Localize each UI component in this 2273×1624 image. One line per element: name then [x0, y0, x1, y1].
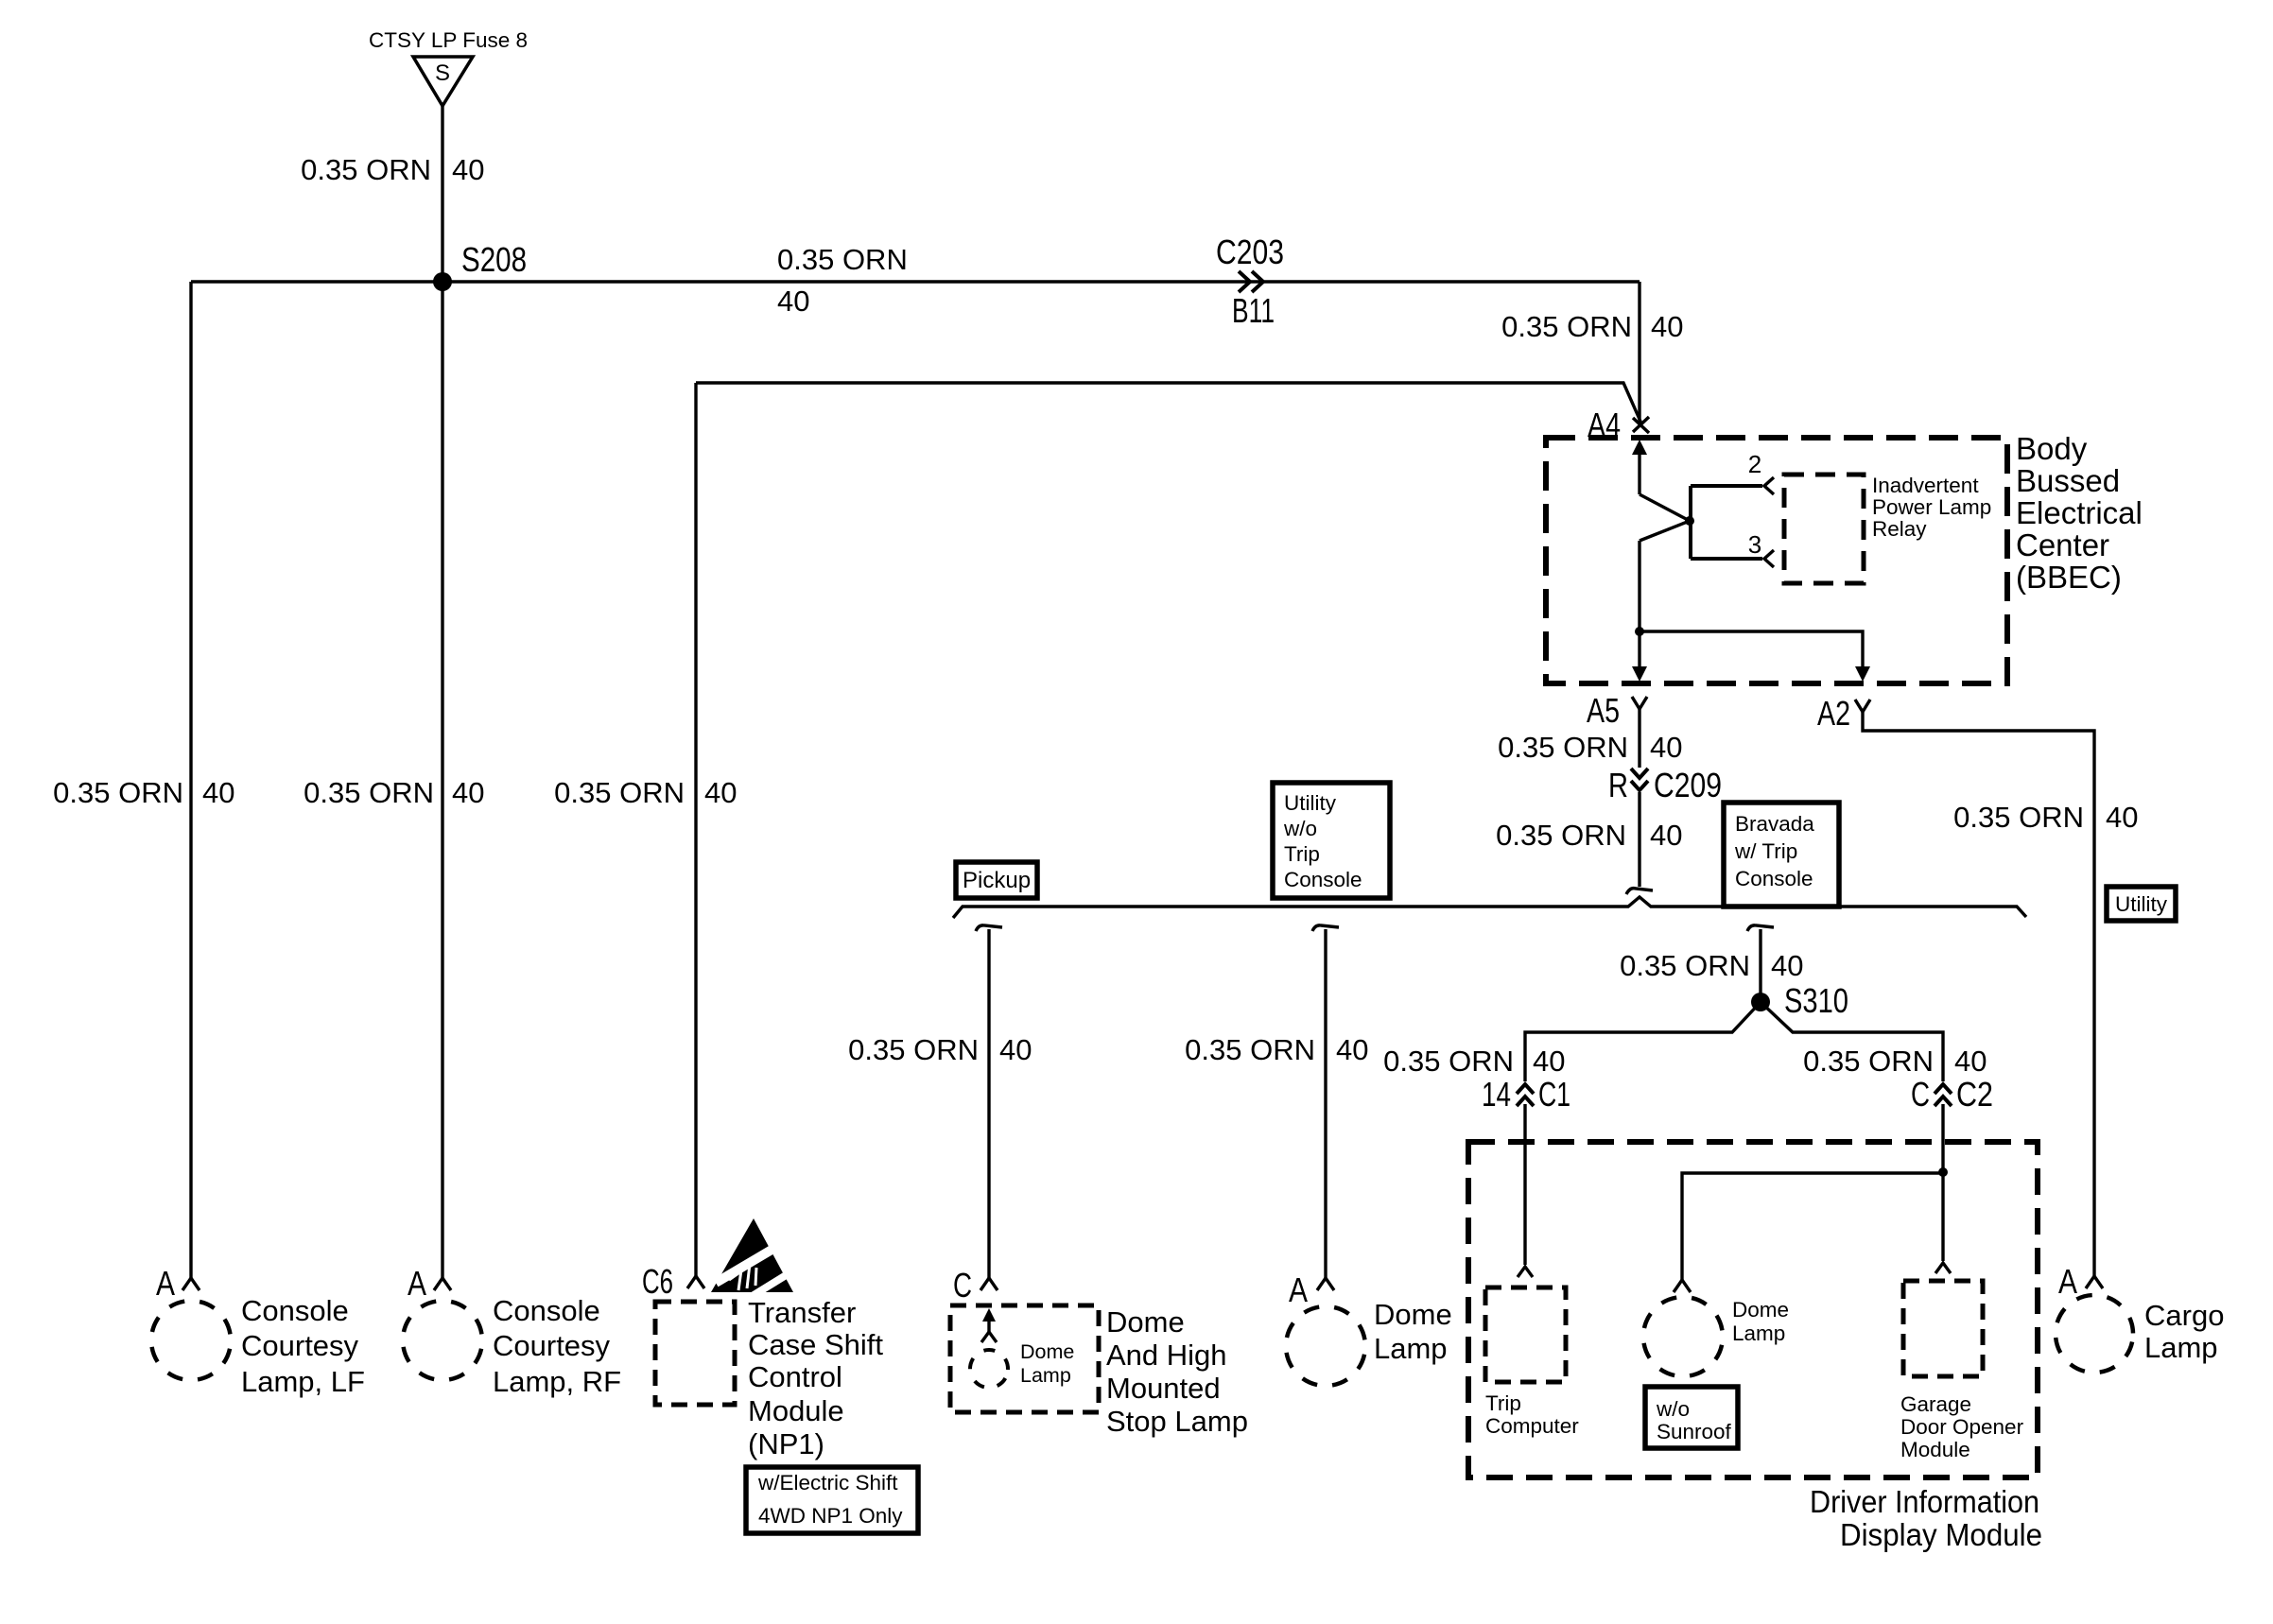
svg-text:40: 40 — [777, 285, 809, 318]
connector 14 C1 — [1482, 1075, 1570, 1114]
label Garage Door Opener Module — [1900, 1392, 2024, 1461]
svg-text:0.35 ORN: 0.35 ORN — [1501, 310, 1632, 343]
wire S310 left branch to C1 — [1525, 1002, 1761, 1081]
svg-text:Dome: Dome — [1732, 1298, 1789, 1322]
fuse symbol S — [413, 57, 473, 106]
Dome And High Mounted Stop Lamp box — [950, 1305, 1099, 1412]
svg-text:40: 40 — [202, 776, 234, 809]
svg-text:Transfer: Transfer — [748, 1296, 856, 1329]
wire S310 right branch to C2 — [1761, 1002, 1943, 1081]
svg-text:Console: Console — [241, 1294, 349, 1327]
svg-text:Dome: Dome — [1106, 1305, 1185, 1339]
svg-text:0.35 ORN: 0.35 ORN — [301, 153, 431, 186]
relay contact bracket pins 2 and 3 — [1691, 450, 1774, 567]
splice bar above bus — [1626, 889, 1653, 894]
label 0.35 ORN 40 (C2 wire) — [1803, 1045, 1987, 1078]
label Dome And High Mounted Stop Lamp — [1106, 1305, 1248, 1438]
label 0.35 ORN 40 (A4 wire) — [1501, 310, 1683, 343]
label 0.35 ORN 40 (LF wire) — [53, 776, 234, 809]
wire dome lamp w/o sunroof — [1682, 1173, 1943, 1280]
svg-text:S: S — [435, 60, 450, 86]
svg-text:14: 14 — [1482, 1075, 1511, 1114]
svg-text:And High: And High — [1106, 1339, 1227, 1372]
svg-text:Control: Control — [748, 1360, 842, 1393]
connector A2 — [1817, 694, 1870, 733]
svg-text:Bussed: Bussed — [2016, 463, 2120, 498]
wire A5 down — [1638, 709, 1640, 768]
svg-text:Stop Lamp: Stop Lamp — [1106, 1405, 1248, 1438]
svg-text:0.35 ORN: 0.35 ORN — [1496, 819, 1626, 852]
svg-text:40: 40 — [452, 153, 484, 186]
svg-text:Power Lamp: Power Lamp — [1872, 495, 1991, 519]
Dome Lamp circle — [1278, 1299, 1373, 1393]
connector A5 — [1587, 691, 1647, 730]
svg-text:0.35 ORN: 0.35 ORN — [53, 776, 183, 809]
svg-text:Lamp: Lamp — [1732, 1322, 1785, 1345]
label Transfer Case Shift Control Module (NP1) — [748, 1296, 883, 1460]
svg-text:0.35 ORN: 0.35 ORN — [1383, 1045, 1514, 1078]
label Dome Lamp (small) — [1020, 1340, 1074, 1387]
connector A — [1289, 1270, 1334, 1309]
label 0.35 ORN 40 (fuse wire) — [301, 153, 484, 186]
svg-text:CTSY LP Fuse 8: CTSY LP Fuse 8 — [369, 28, 528, 52]
connector into dome lamp w/o sunroof — [1674, 1280, 1691, 1292]
svg-text:w/Electric Shift: w/Electric Shift — [757, 1471, 898, 1494]
svg-text:Garage: Garage — [1900, 1392, 1971, 1416]
label 0.35 ORN 40 (drop 2) — [1185, 1033, 1368, 1066]
svg-text:w/o: w/o — [1656, 1397, 1690, 1421]
Trip Computer box — [1485, 1287, 1566, 1382]
svg-text:0.35 ORN: 0.35 ORN — [554, 776, 685, 809]
label Dome Lamp — [1374, 1298, 1452, 1365]
label 0.35 ORN 40 (A5) — [1498, 731, 1682, 764]
svg-text:Sunroof: Sunroof — [1657, 1420, 1732, 1443]
svg-text:Console: Console — [1284, 868, 1362, 891]
svg-text:40: 40 — [2106, 801, 2138, 834]
junction dot garage — [1938, 1167, 1948, 1177]
svg-text:Module: Module — [1900, 1438, 1970, 1461]
svg-text:(BBEC): (BBEC) — [2016, 560, 2122, 595]
svg-text:0.35 ORN: 0.35 ORN — [1498, 731, 1628, 764]
svg-text:Trip: Trip — [1284, 842, 1320, 866]
svg-text:Utility: Utility — [1284, 791, 1337, 815]
Console Courtesy Lamp LF circle — [144, 1293, 238, 1388]
svg-text:40: 40 — [1651, 310, 1683, 343]
svg-text:Console: Console — [493, 1294, 600, 1327]
arrow out A5 — [1632, 631, 1647, 682]
label 0.35 ORN 40 (below C209) — [1496, 819, 1682, 852]
svg-text:Center: Center — [2016, 527, 2109, 562]
connector C203 B11 — [1216, 233, 1284, 330]
svg-text:0.35 ORN: 0.35 ORN — [848, 1033, 979, 1066]
svg-text:40: 40 — [1650, 819, 1682, 852]
svg-text:C1: C1 — [1538, 1075, 1570, 1114]
svg-text:A5: A5 — [1587, 691, 1620, 730]
svg-text:w/o: w/o — [1283, 817, 1317, 840]
svg-text:Cargo: Cargo — [2144, 1299, 2224, 1332]
svg-text:0.35 ORN: 0.35 ORN — [304, 776, 434, 809]
svg-text:40: 40 — [452, 776, 484, 809]
svg-text:C: C — [1911, 1075, 1930, 1114]
svg-text:Body: Body — [2016, 431, 2088, 466]
wire C209 to bus — [1638, 792, 1640, 887]
svg-text:A: A — [2058, 1262, 2077, 1301]
svg-text:40: 40 — [1533, 1045, 1565, 1078]
arrow into BBEC from A4 — [1632, 440, 1647, 494]
wire C2 down to junction — [1941, 1104, 1944, 1261]
label Trip Computer — [1485, 1391, 1579, 1438]
svg-text:40: 40 — [1954, 1045, 1987, 1078]
svg-text:2: 2 — [1748, 450, 1761, 478]
svg-text:C2: C2 — [1956, 1075, 1993, 1114]
connector into Trip Computer — [1518, 1267, 1533, 1277]
Garage Door Opener Module box — [1903, 1281, 1983, 1376]
svg-text:0.35 ORN: 0.35 ORN — [1185, 1033, 1315, 1066]
svg-text:4WD NP1 Only: 4WD NP1 Only — [758, 1504, 903, 1528]
connector A4 — [1588, 406, 1649, 444]
ESD symbol — [711, 1218, 795, 1297]
wire A2 to cargo — [1863, 712, 2094, 1276]
connector A (lamp LF) — [156, 1264, 200, 1303]
svg-text:R: R — [1608, 766, 1628, 804]
svg-text:Lamp: Lamp — [1020, 1364, 1071, 1387]
node S310 — [1751, 981, 1848, 1020]
node S208 — [433, 240, 527, 291]
label 0.35 ORN 40 (C6 wire) — [554, 776, 737, 809]
arrow inside dome box — [981, 1308, 997, 1342]
svg-text:Display Module: Display Module — [1840, 1517, 2042, 1552]
small dome lamp circle — [963, 1343, 1015, 1395]
connector A (cargo) — [2058, 1262, 2103, 1301]
svg-text:C6: C6 — [642, 1262, 673, 1301]
svg-text:Trip: Trip — [1485, 1391, 1521, 1415]
Cargo Lamp circle — [2048, 1287, 2140, 1379]
connector into garage door opener — [1935, 1263, 1951, 1273]
BBEC box — [1546, 438, 2007, 683]
connector A (lamp RF) — [408, 1264, 451, 1303]
w/o Sunroof box — [1645, 1387, 1738, 1448]
relay armature — [1640, 494, 1694, 631]
label 0.35 ORN 40 (S310 wire) — [1620, 949, 1803, 982]
splice drop 3 — [1747, 925, 1774, 994]
connector C C2 — [1911, 1075, 1993, 1114]
svg-text:Console: Console — [1735, 867, 1813, 890]
label 0.35 ORN 40 (C1 wire) — [1383, 1045, 1565, 1078]
svg-text:0.35 ORN: 0.35 ORN — [777, 243, 908, 276]
svg-text:Lamp, LF: Lamp, LF — [241, 1365, 365, 1398]
svg-text:A: A — [1289, 1270, 1308, 1309]
svg-text:Utility: Utility — [2115, 892, 2168, 916]
svg-text:Courtesy: Courtesy — [241, 1329, 359, 1362]
svg-text:Courtesy: Courtesy — [493, 1329, 611, 1362]
wire C1 to Trip Computer — [1523, 1104, 1526, 1265]
Utility w/o Trip Console box — [1273, 783, 1390, 898]
label 0.35 ORN (S208 to C203) — [777, 243, 908, 318]
svg-text:3: 3 — [1748, 530, 1761, 559]
svg-text:C209: C209 — [1654, 766, 1722, 804]
svg-text:A: A — [156, 1264, 175, 1303]
fuse CTSY LP Fuse 8 label — [369, 28, 528, 52]
svg-text:Module: Module — [748, 1394, 844, 1427]
svg-text:40: 40 — [1771, 949, 1803, 982]
label Dome Lamp (w/o sunroof) — [1732, 1298, 1789, 1345]
svg-text:Case Shift: Case Shift — [748, 1328, 883, 1361]
svg-text:Driver Information: Driver Information — [1810, 1484, 2039, 1519]
svg-text:C: C — [953, 1266, 972, 1304]
Console Courtesy Lamp RF circle — [395, 1293, 490, 1388]
svg-text:0.35 ORN: 0.35 ORN — [1620, 949, 1750, 982]
connector C — [953, 1266, 998, 1304]
svg-text:A: A — [408, 1264, 426, 1303]
Bravada w/ Trip Console box — [1724, 803, 1839, 907]
svg-text:(NP1): (NP1) — [748, 1427, 824, 1460]
w/Electric Shift 4WD NP1 Only box — [746, 1467, 918, 1533]
dome lamp w/o sunroof circle — [1636, 1289, 1730, 1384]
Utility box (right) — [2107, 887, 2176, 921]
svg-text:0.35 ORN: 0.35 ORN — [1953, 801, 2084, 834]
bus wire — [953, 897, 2026, 918]
relay name — [1872, 474, 1991, 541]
wire to A2 exit — [1640, 631, 1863, 667]
svg-text:w/ Trip: w/ Trip — [1734, 839, 1797, 863]
label Console Courtesy Lamp, LF — [241, 1294, 365, 1398]
label 0.35 ORN 40 (cargo wire) — [1953, 801, 2138, 834]
splice drop 2 — [1312, 925, 1339, 1278]
svg-text:S310: S310 — [1784, 981, 1848, 1020]
label Driver Information Display Module — [1810, 1484, 2042, 1552]
svg-text:40: 40 — [999, 1033, 1032, 1066]
svg-text:B11: B11 — [1232, 291, 1275, 330]
svg-text:C203: C203 — [1216, 233, 1284, 271]
arrow out A2 — [1855, 666, 1870, 682]
svg-text:A2: A2 — [1817, 694, 1850, 733]
Transfer Case Shift Control Module box — [655, 1302, 735, 1405]
wire C6 drop — [694, 383, 697, 1276]
svg-text:Bravada: Bravada — [1735, 812, 1814, 836]
wire drop S208 to Console Courtesy Lamp RF — [441, 282, 443, 1278]
Inadvertent Power Lamp Relay box — [1784, 475, 1864, 583]
svg-text:40: 40 — [704, 776, 737, 809]
connector R C209 — [1608, 766, 1722, 804]
svg-text:Relay: Relay — [1872, 517, 1927, 541]
wire second horizontal to A4 — [696, 383, 1641, 423]
svg-text:Dome: Dome — [1374, 1298, 1452, 1331]
svg-text:Lamp: Lamp — [2144, 1331, 2218, 1364]
wire right corner down to A4 — [1638, 282, 1640, 422]
junction inside BBEC — [1635, 627, 1644, 636]
label Cargo Lamp — [2144, 1299, 2224, 1364]
label Console Courtesy Lamp, RF — [493, 1294, 621, 1398]
svg-text:Inadvertent: Inadvertent — [1872, 474, 1979, 497]
svg-text:Computer: Computer — [1485, 1414, 1579, 1438]
label 0.35 ORN 40 (drop 1) — [848, 1033, 1032, 1066]
DIDM box — [1468, 1142, 2038, 1477]
Pickup box — [956, 862, 1037, 898]
BBEC name — [2016, 431, 2143, 595]
svg-text:Lamp, RF: Lamp, RF — [493, 1365, 621, 1398]
connector C6 — [642, 1262, 704, 1301]
svg-text:Door Opener: Door Opener — [1900, 1415, 2024, 1439]
svg-text:0.35 ORN: 0.35 ORN — [1803, 1045, 1934, 1078]
svg-text:40: 40 — [1650, 731, 1682, 764]
svg-text:S208: S208 — [461, 240, 527, 279]
svg-text:Pickup: Pickup — [963, 868, 1031, 893]
svg-text:Dome: Dome — [1020, 1340, 1074, 1363]
label 0.35 ORN 40 (RF wire) — [304, 776, 484, 809]
svg-text:Electrical: Electrical — [2016, 495, 2143, 530]
wire main horizontal from LF corner to right corner — [191, 280, 1640, 283]
svg-text:Mounted: Mounted — [1106, 1372, 1221, 1405]
svg-text:Lamp: Lamp — [1374, 1332, 1448, 1365]
wire fuse to S208 — [441, 106, 443, 282]
svg-text:40: 40 — [1336, 1033, 1368, 1066]
splice drop 1 — [976, 925, 1002, 1278]
wire left drop to Console Courtesy Lamp LF — [189, 282, 192, 1278]
